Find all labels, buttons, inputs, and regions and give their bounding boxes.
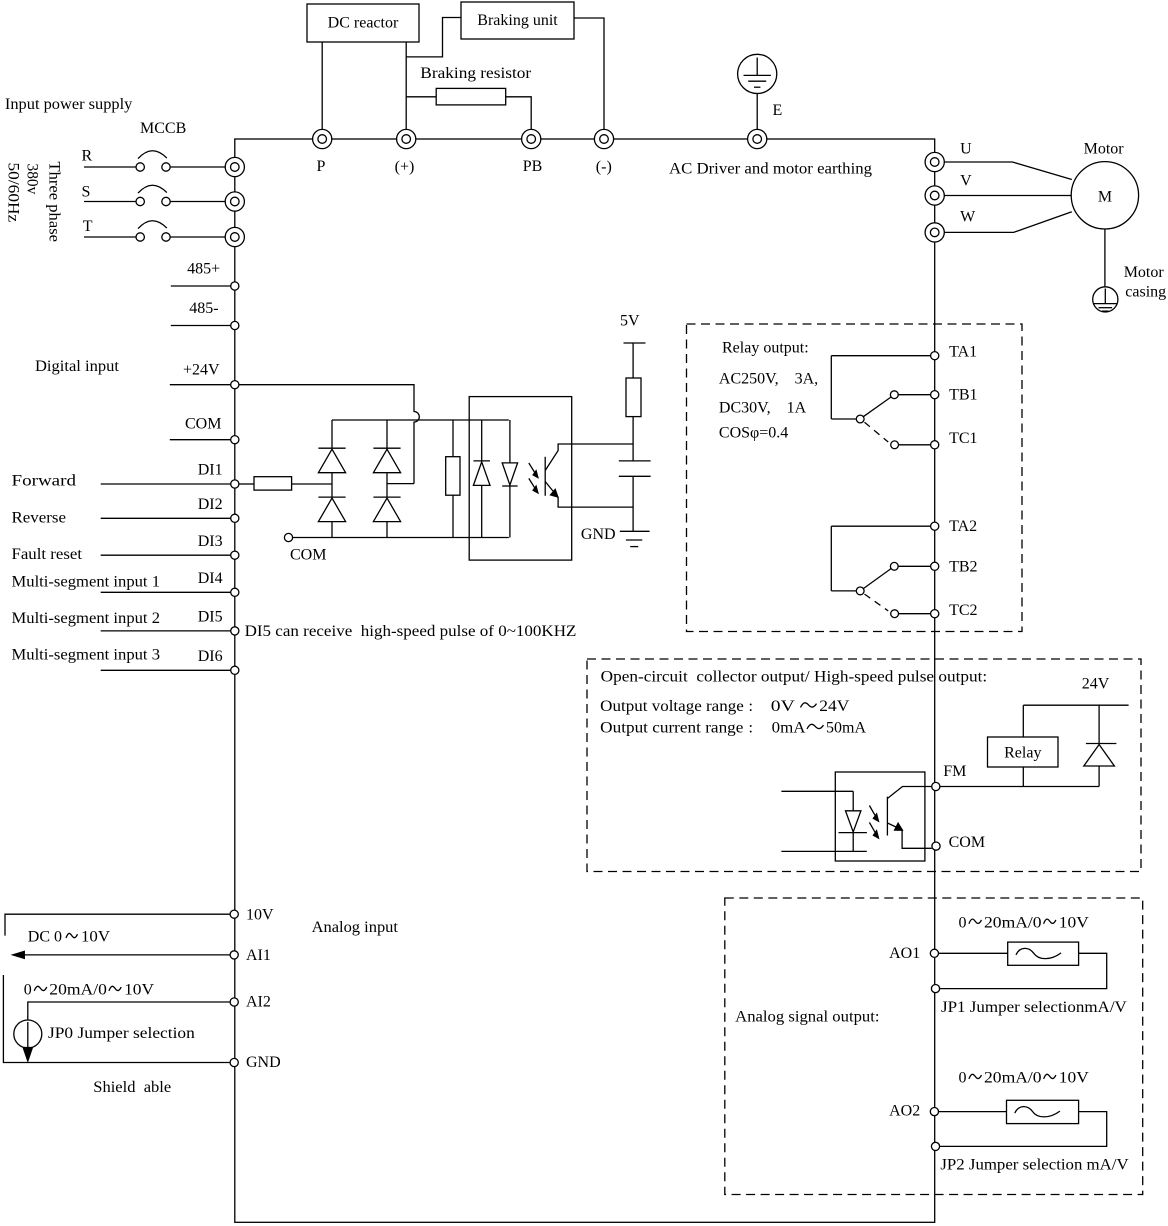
svg-text:T: T xyxy=(83,218,93,235)
svg-text:Relay: Relay xyxy=(1004,744,1041,761)
svg-text:Motor: Motor xyxy=(1084,141,1125,158)
svg-text:5V: 5V xyxy=(620,313,640,330)
svg-text::: : xyxy=(749,720,753,737)
svg-text:DI5: DI5 xyxy=(198,609,223,626)
svg-text:485-: 485- xyxy=(189,300,218,317)
svg-text:TA2: TA2 xyxy=(949,518,977,535)
svg-text:Motor: Motor xyxy=(1124,264,1165,281)
svg-text:+24V: +24V xyxy=(183,362,220,379)
svg-text:AI1: AI1 xyxy=(246,947,271,964)
svg-text:U: U xyxy=(960,140,972,157)
svg-text:0V: 0V xyxy=(771,698,796,715)
svg-text:Multi-segment input 3: Multi-segment input 3 xyxy=(12,647,161,664)
svg-text:W: W xyxy=(960,209,976,226)
svg-text:10V: 10V xyxy=(81,929,110,946)
svg-text:COM: COM xyxy=(185,416,221,433)
svg-text:Analog signal output:: Analog signal output: xyxy=(735,1009,879,1026)
svg-text:50/60Hz: 50/60Hz xyxy=(4,163,21,223)
svg-text:50mA: 50mA xyxy=(826,720,866,737)
svg-text::: : xyxy=(749,698,753,715)
svg-text:GND: GND xyxy=(581,526,616,543)
svg-text:MCCB: MCCB xyxy=(140,120,186,137)
svg-text:Reverse: Reverse xyxy=(12,510,67,527)
svg-text:(+): (+) xyxy=(395,159,415,176)
svg-text:20mA/0: 20mA/0 xyxy=(984,914,1042,931)
svg-text:AC Driver and motor earthing: AC Driver and motor earthing xyxy=(669,161,872,178)
svg-text:Three phase: Three phase xyxy=(45,162,62,243)
svg-text:Output voltage range: Output voltage range xyxy=(600,698,744,715)
svg-text:Braking unit: Braking unit xyxy=(477,12,558,29)
svg-text:0: 0 xyxy=(959,914,967,931)
svg-text:TA1: TA1 xyxy=(949,344,977,361)
svg-text:V: V xyxy=(960,172,972,189)
svg-text:Output current range: Output current range xyxy=(600,720,743,737)
svg-text:Braking resistor: Braking resistor xyxy=(420,65,532,82)
svg-text:M: M xyxy=(1098,188,1112,205)
svg-text:10V: 10V xyxy=(124,982,154,999)
svg-text:DI4: DI4 xyxy=(198,570,223,587)
svg-text:AO2: AO2 xyxy=(889,1103,920,1120)
svg-text:PB: PB xyxy=(523,158,543,175)
svg-text:(-): (-) xyxy=(596,159,612,176)
svg-text:COM: COM xyxy=(290,547,326,564)
svg-text:Fault reset: Fault reset xyxy=(12,546,83,563)
svg-text:DC reactor: DC reactor xyxy=(328,15,399,32)
svg-text:AC250V, 3A,: AC250V, 3A, xyxy=(719,370,818,387)
svg-text:10V: 10V xyxy=(246,907,274,924)
svg-text:DI1: DI1 xyxy=(198,462,223,479)
svg-text:P: P xyxy=(317,158,326,175)
svg-text:Shield able: Shield able xyxy=(93,1079,171,1096)
svg-text:485+: 485+ xyxy=(187,260,220,277)
svg-text:JP0 Jumper selection: JP0 Jumper selection xyxy=(48,1025,195,1042)
svg-text:COM: COM xyxy=(949,834,985,851)
svg-text:Open-circuit collector output: Open-circuit collector output/ High-spee… xyxy=(601,669,988,686)
svg-text:R: R xyxy=(82,148,93,165)
svg-text:Analog input: Analog input xyxy=(312,919,399,936)
svg-text:Multi-segment input 1: Multi-segment input 1 xyxy=(12,574,161,591)
svg-text:FM: FM xyxy=(943,763,966,780)
svg-text:DI3: DI3 xyxy=(198,533,223,550)
svg-text:Relay output:: Relay output: xyxy=(722,340,809,357)
svg-text:0: 0 xyxy=(959,1070,967,1087)
svg-text:DI5 can receive high-speed pu: DI5 can receive high-speed pulse of 0~10… xyxy=(245,623,577,640)
svg-text:DI6: DI6 xyxy=(198,648,223,665)
svg-text:JP1 Jumper selectionmA/V: JP1 Jumper selectionmA/V xyxy=(941,999,1127,1016)
svg-text:10V: 10V xyxy=(1059,1070,1089,1087)
svg-text:AI2: AI2 xyxy=(246,993,271,1010)
svg-text:20mA/0: 20mA/0 xyxy=(984,1070,1042,1087)
svg-text:380v: 380v xyxy=(23,164,40,195)
svg-text:Multi-segment input 2: Multi-segment input 2 xyxy=(12,610,161,627)
svg-text:24V: 24V xyxy=(819,698,849,715)
svg-text:JP2 Jumper selection mA/V: JP2 Jumper selection mA/V xyxy=(940,1157,1129,1174)
svg-text:COSφ=0.4: COSφ=0.4 xyxy=(719,425,788,442)
svg-text:TC2: TC2 xyxy=(949,602,977,619)
svg-text:casing: casing xyxy=(1125,283,1166,300)
svg-text:AO1: AO1 xyxy=(889,945,920,962)
svg-text:DI2: DI2 xyxy=(198,496,223,513)
svg-text:TB2: TB2 xyxy=(949,559,977,576)
svg-text:20mA/0: 20mA/0 xyxy=(49,982,107,999)
svg-text:DC30V, 1A: DC30V, 1A xyxy=(719,400,807,417)
svg-text:Digital input: Digital input xyxy=(35,358,120,375)
svg-text:Forward: Forward xyxy=(12,473,77,490)
svg-text:GND: GND xyxy=(246,1054,281,1071)
svg-text:24V: 24V xyxy=(1082,675,1110,692)
svg-text:DC 0: DC 0 xyxy=(28,929,62,946)
svg-text:Input power supply: Input power supply xyxy=(5,96,132,113)
svg-text:TC1: TC1 xyxy=(949,430,977,447)
svg-text:0: 0 xyxy=(24,982,32,999)
svg-text:S: S xyxy=(82,183,91,200)
svg-text:E: E xyxy=(773,102,783,119)
svg-text:0mA: 0mA xyxy=(772,720,806,737)
svg-text:TB1: TB1 xyxy=(949,387,977,404)
svg-text:10V: 10V xyxy=(1059,914,1089,931)
